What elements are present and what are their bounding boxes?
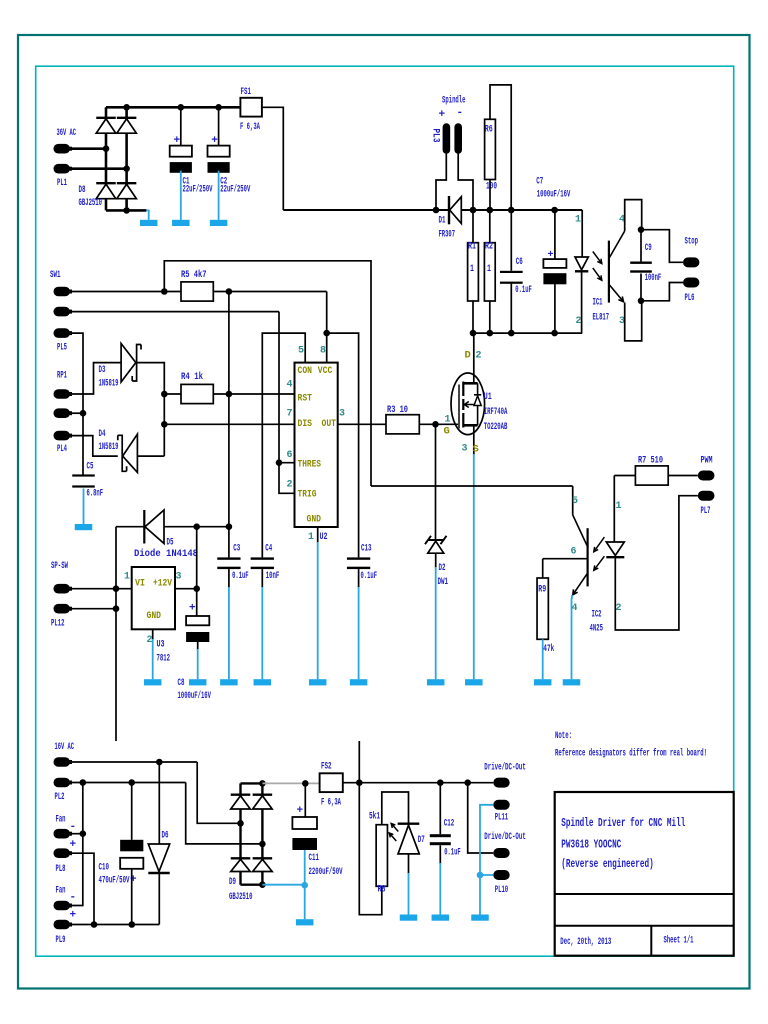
svg-text:FR307: FR307	[439, 229, 456, 241]
svg-text:R9: R9	[538, 584, 546, 596]
wire net row to IC2 pin5	[371, 485, 573, 487]
junction D5 row / +12V column	[226, 523, 233, 530]
wire OUT to R3	[338, 423, 386, 425]
wire +rail bridge to FS1	[106, 106, 240, 109]
wire PL4 to D4 cathode	[70, 436, 118, 457]
diode D7 (LED)	[398, 823, 420, 825]
svg-text:2200uF/50V: 2200uF/50V	[309, 866, 343, 878]
pad SW1 pin 1	[54, 287, 71, 297]
ground of D2	[435, 567, 437, 679]
svg-text:7: 7	[287, 409, 293, 420]
wire THRES column	[279, 312, 295, 463]
IC2 light arrow 1	[594, 537, 605, 552]
svg-text:F 6,3A: F 6,3A	[321, 797, 341, 809]
svg-text:0.1uF: 0.1uF	[515, 284, 532, 296]
diode D5 1N4148	[143, 510, 145, 544]
wire gate column down to D2	[435, 424, 437, 539]
wire C12 bottom lead	[439, 845, 441, 864]
svg-text:3: 3	[339, 409, 345, 420]
wire D7 anode lead	[408, 854, 410, 874]
svg-text:22uF/250V: 22uF/250V	[183, 184, 213, 196]
junction rail / spindle- / R1	[470, 207, 477, 214]
svg-text:SW1: SW1	[50, 269, 61, 281]
wire IC1 collector to C9 node	[625, 200, 642, 231]
wire column to R4	[164, 393, 181, 395]
IC2 light arrow 2	[594, 556, 605, 570]
junction R5 right / +12V column	[226, 288, 233, 295]
junction rail / R8 loop	[356, 779, 363, 786]
pad Fan2 - (PL9 pin 1)	[54, 901, 71, 911]
wire C1 top lead	[180, 107, 182, 145]
junction PL12 / column	[113, 605, 120, 612]
svg-text:GBJ2510: GBJ2510	[229, 891, 253, 903]
svg-text:PL5: PL5	[57, 341, 67, 353]
wire upper section to FS2 out	[358, 741, 360, 783]
svg-text:6.8nF: 6.8nF	[87, 488, 104, 500]
svg-text:Fan: Fan	[56, 885, 66, 897]
svg-text:D9: D9	[229, 876, 236, 888]
wire SW1.3 down to C5	[70, 333, 83, 475]
svg-text:PL7: PL7	[701, 505, 711, 517]
LED of IC2	[606, 542, 624, 556]
svg-text:IC2: IC2	[592, 609, 602, 621]
wire R7 left lead	[614, 475, 635, 477]
wire C7 bottom lead	[554, 284, 556, 334]
IC1 light arrow 1	[593, 252, 602, 264]
wire D6 bottom lead	[158, 873, 160, 925]
wire Q1 source lead	[473, 425, 475, 455]
wire RP1.2 stub	[70, 412, 83, 414]
pad Drive (PL11 pin 1)	[493, 778, 509, 788]
diode D8 top-right	[117, 117, 137, 119]
svg-text:GBJ2510: GBJ2510	[79, 197, 103, 209]
svg-text:RST: RST	[298, 393, 313, 405]
svg-text:Dec, 20th, 2013: Dec, 20th, 2013	[560, 936, 611, 948]
junction D9 top rail	[259, 780, 266, 787]
resistor R4	[181, 384, 213, 403]
svg-text:1: 1	[124, 572, 130, 583]
phototransistor of IC1	[608, 241, 610, 303]
wire VCC branch to C13	[327, 333, 359, 557]
svg-text:G: G	[444, 426, 450, 438]
junction IC1 emitter / C9 / PL6	[638, 298, 645, 305]
wire R1 top lead	[472, 210, 474, 243]
wire cyan ground run from D9	[262, 885, 304, 920]
fuse FS1	[240, 98, 262, 117]
svg-text:THRES: THRES	[298, 458, 322, 470]
svg-text:7812: 7812	[157, 653, 171, 665]
svg-text:1: 1	[487, 263, 491, 275]
svg-text:+: +	[439, 109, 446, 121]
svg-text:PL1: PL1	[57, 177, 67, 189]
wire PL9 row	[70, 924, 159, 926]
junction PL2 / fan column	[80, 779, 87, 786]
wire to TRIG pin	[279, 463, 295, 494]
diode D3 1N5819	[121, 344, 136, 383]
junction rail / C2	[215, 104, 222, 111]
wire C11 bottom lead	[304, 850, 306, 885]
junction PL2 / C10	[128, 779, 135, 786]
junction rail / C6	[508, 207, 515, 214]
wire C9 top lead	[640, 230, 642, 262]
junction rail / C1	[178, 104, 185, 111]
wire IC2 base row to R9	[543, 558, 588, 560]
svg-text:Note:: Note:	[555, 730, 572, 742]
svg-text:10nF: 10nF	[266, 570, 280, 582]
transistor Q1 IRF740A	[451, 373, 485, 435]
svg-text:IRF740A: IRF740A	[484, 406, 508, 418]
svg-text:D7: D7	[418, 834, 425, 846]
diode D8 bottom-left	[96, 182, 116, 184]
svg-text:PL11: PL11	[495, 812, 509, 824]
ground of C13	[358, 587, 360, 679]
svg-text:C8: C8	[178, 677, 185, 689]
wire CON pin to C4	[262, 333, 305, 557]
svg-text:-: -	[457, 107, 464, 119]
junction drain row / C6	[508, 330, 515, 337]
wire C12 top lead	[439, 783, 441, 835]
wire PL2 to bridge right mid	[186, 783, 263, 844]
wire D5 row	[116, 526, 229, 528]
svg-text:R1: R1	[468, 241, 476, 253]
junction THRES / TRIG	[276, 459, 283, 466]
junction rail / Drive2	[464, 779, 471, 786]
svg-text:U2: U2	[320, 531, 328, 543]
svg-text:2: 2	[287, 479, 293, 490]
resistor R3	[386, 415, 419, 434]
wire spindle- to drain net	[458, 154, 473, 211]
drawing frame inner border	[36, 66, 734, 956]
ground of R9	[542, 639, 544, 679]
svg-text:PL12: PL12	[51, 617, 65, 629]
wire C7 top lead	[554, 210, 556, 259]
wire Fan1- stub	[70, 833, 83, 835]
wire +12V column R5-R4-D5-C3	[228, 292, 230, 558]
svg-text:DW1: DW1	[438, 576, 449, 588]
svg-text:R5 4k7: R5 4k7	[181, 269, 207, 281]
ground of C3	[228, 587, 230, 679]
wire fan column	[70, 783, 83, 906]
junction C11 / FS2 input	[302, 780, 309, 787]
svg-text:PL6: PL6	[685, 292, 695, 304]
ground of C5	[83, 489, 85, 525]
svg-text:4N25: 4N25	[590, 623, 604, 635]
diode D4 1N5819	[123, 434, 138, 472]
ground of U2	[317, 542, 319, 679]
pad PL10 pin 2	[493, 870, 509, 880]
svg-text:100nF: 100nF	[645, 272, 662, 284]
svg-text:R7 510: R7 510	[638, 455, 663, 467]
IC U2 (555 timer) body	[295, 363, 338, 527]
svg-text:C3: C3	[233, 543, 240, 555]
svg-text:16V AC: 16V AC	[55, 741, 75, 753]
pad PWM (PL7 pin 1)	[698, 471, 715, 481]
pad SW1 pin 2	[54, 307, 71, 317]
svg-text:C6: C6	[516, 256, 523, 268]
svg-text:5k1: 5k1	[369, 811, 380, 823]
svg-text:Sheet 1/1: Sheet 1/1	[664, 935, 694, 947]
wire column D5 to lower section	[115, 527, 117, 741]
svg-text:R2: R2	[485, 241, 493, 253]
wire R2 bottom lead	[489, 301, 491, 333]
svg-text:36V AC: 36V AC	[57, 127, 77, 139]
wire C10 top lead	[131, 783, 133, 840]
resistor R1	[468, 243, 479, 301]
IC2 emitter diagonal with arrowhead	[573, 573, 588, 595]
wire 16VAC.1 to bridge left mid	[197, 762, 240, 823]
ground of D7	[408, 873, 410, 915]
pad 16VAC pin 1	[54, 757, 71, 767]
pad Fan1 + (PL8 pin 2)	[54, 848, 71, 858]
pad PL3 pin 2 (spindle -)	[454, 123, 462, 154]
pad PL11 pin 2	[493, 800, 509, 810]
Q1 body diode	[474, 383, 481, 425]
junction D5 row / C8	[193, 523, 200, 530]
wire 36V rail row	[283, 209, 582, 211]
svg-text:6: 6	[287, 450, 293, 461]
svg-text:-: -	[70, 821, 77, 833]
svg-text:1: 1	[470, 263, 474, 275]
junction PL9 row / Fan1+ column	[91, 921, 98, 928]
junction gate / D2 column	[432, 421, 439, 428]
svg-text:PL4: PL4	[57, 443, 67, 455]
junction SW1.1 / R5 loop	[161, 288, 168, 295]
svg-text:R8: R8	[378, 884, 386, 896]
wire IC1 anode lead	[581, 210, 583, 257]
wire R8 bottom loop	[359, 783, 382, 915]
svg-text:1: 1	[575, 215, 581, 226]
capacitor C1	[170, 146, 192, 157]
wire D8 bridge bottom rail	[106, 209, 146, 212]
junction rail / C12	[437, 779, 444, 786]
junction rail / spindle+	[433, 207, 440, 214]
ground of IC2 emitter	[563, 679, 581, 685]
wire drain net row	[473, 332, 582, 334]
ground of D8 bridge	[140, 220, 158, 226]
junction R4 right / +12V column	[226, 391, 233, 398]
svg-text:1: 1	[445, 415, 451, 426]
svg-text:4: 4	[287, 380, 293, 391]
wire D9 bottom rail	[241, 884, 263, 886]
wire R2 top lead	[489, 210, 491, 243]
svg-text:2: 2	[147, 635, 153, 646]
ground of C8	[197, 649, 199, 679]
wire C3 bottom lead	[228, 569, 230, 588]
capacitor C11	[292, 817, 317, 829]
resistor R9	[537, 578, 548, 639]
svg-text:D8: D8	[79, 184, 86, 196]
svg-text:+: +	[189, 603, 196, 615]
svg-text:1000uF/16V: 1000uF/16V	[537, 189, 571, 201]
wire D8 bridge left leg	[105, 107, 108, 210]
wire RP1.1 to D3 anode	[70, 363, 121, 394]
svg-text:+: +	[70, 839, 77, 851]
junction drain row / R1	[470, 330, 477, 337]
junction +12V / C8 column	[193, 585, 200, 592]
wire PL1.1 to bridge left mid	[70, 147, 106, 150]
svg-text:2: 2	[616, 603, 622, 614]
pad PL1 pin 1	[54, 144, 71, 154]
wire R9 top lead	[542, 559, 544, 578]
svg-text:D5: D5	[167, 537, 174, 549]
IC U3 (7812 regulator) body	[132, 567, 175, 629]
svg-text:SP-SW: SP-SW	[51, 560, 68, 572]
junction VCC / C13 branch	[323, 330, 330, 337]
junction drain row / C7	[551, 330, 558, 337]
pad Drive (PL10 pin 1)	[493, 848, 509, 858]
wire +12V pin to C8	[175, 588, 197, 590]
svg-text:Fan: Fan	[56, 814, 66, 826]
wire VCC pin column	[326, 292, 328, 363]
svg-text:PL9: PL9	[56, 934, 66, 946]
junction 16VAC.1 / D6	[156, 759, 163, 766]
wire D9 bridge left leg	[239, 783, 241, 884]
wire Fan1+ to PL9 row	[70, 853, 94, 924]
svg-text:EL817: EL817	[593, 312, 610, 324]
svg-text:0.1uF: 0.1uF	[444, 847, 461, 859]
wire D6 top lead	[158, 762, 160, 844]
wire D3 cathode to column	[137, 363, 165, 457]
wire C9 bottom lead	[640, 274, 642, 301]
svg-text:22uF/250V: 22uF/250V	[220, 184, 250, 196]
svg-text:C4: C4	[265, 543, 272, 555]
IC1 emitter diagonal with arrowhead	[609, 284, 624, 302]
diode D9 bottom-right	[253, 857, 273, 859]
wire Q1 drain lead	[473, 333, 475, 383]
wire IC2 pin5 lead	[572, 486, 574, 515]
svg-text:C13: C13	[361, 543, 372, 555]
diode D9 top-left	[231, 794, 251, 796]
wire C6 top lead	[510, 210, 512, 271]
pad PL12 pin 2	[54, 604, 71, 614]
wire 16VAC.1 row	[70, 761, 197, 763]
wire rail to Drive2 pad	[468, 783, 494, 853]
wire R5 loop over to D2/IC2 net	[164, 261, 371, 486]
svg-text:5: 5	[572, 496, 578, 507]
svg-text:C7: C7	[536, 176, 543, 188]
svg-text:0.1uF: 0.1uF	[232, 570, 249, 582]
svg-text:Spindle Driver for CNC Mill: Spindle Driver for CNC Mill	[561, 816, 685, 830]
svg-text:C12: C12	[444, 818, 455, 830]
wire R6 bottom lead	[489, 180, 491, 211]
wire IC1 cathode lead	[581, 271, 583, 333]
wire D3/D4 net to DIS pin	[164, 423, 294, 425]
junction RP1.2 / C5 column	[80, 410, 87, 417]
svg-text:1000uF/16V: 1000uF/16V	[178, 690, 212, 702]
pad PL2 pin 2	[54, 778, 71, 788]
svg-text:470uF/50V: 470uF/50V	[99, 875, 130, 887]
wire C10 bottom lead	[131, 869, 133, 925]
svg-text:PL10: PL10	[495, 884, 509, 896]
ground of PL10/PL11	[471, 915, 489, 921]
wire C11 top lead	[304, 783, 306, 816]
svg-text:(Reverse engineered): (Reverse engineered)	[561, 857, 654, 871]
wire PL1.2 to bridge right mid	[70, 167, 127, 170]
svg-text:C10: C10	[99, 862, 110, 874]
wire to Stop pad	[641, 230, 683, 263]
svg-text:S: S	[473, 444, 479, 456]
junction bottom rail / right leg	[123, 207, 130, 214]
wire SW1.1 to R5	[70, 291, 181, 293]
diode D8 top-left	[96, 117, 116, 119]
ground of C12	[439, 863, 441, 915]
svg-text:DIS: DIS	[298, 418, 313, 430]
junction bridge right mid	[123, 165, 130, 172]
diode D8 bottom-right	[117, 182, 137, 184]
svg-text:2: 2	[576, 316, 582, 327]
svg-text:GND: GND	[307, 513, 322, 525]
diode D2 DW1	[425, 536, 447, 544]
wire C8 column	[196, 527, 198, 616]
pad PL3 pin 1 (spindle +)	[443, 123, 451, 154]
svg-text:TO220AB: TO220AB	[484, 421, 508, 433]
wire U2 GND pin lead	[317, 527, 319, 543]
capacitor C5	[72, 474, 95, 476]
svg-text:IC1: IC1	[593, 297, 603, 309]
svg-text:C5: C5	[87, 461, 94, 473]
ground of C4	[261, 587, 263, 679]
pad PL1 pin 2	[54, 164, 71, 174]
wire spindle+ to rail	[436, 154, 446, 211]
junction drain row / R2	[487, 330, 494, 337]
svg-text:C11: C11	[309, 852, 320, 864]
svg-text:C9: C9	[645, 242, 652, 254]
junction IC1 collector / C9 / Stop	[638, 226, 645, 233]
IC2 collector diagonal	[573, 515, 588, 547]
wire C13 bottom lead	[358, 569, 360, 588]
svg-text:PW3618 YOOCNC: PW3618 YOOCNC	[561, 838, 621, 852]
pad SP-SW (PL12 pin 1)	[54, 584, 71, 594]
svg-text:D3: D3	[99, 364, 106, 376]
pad RP1 pin 1	[54, 389, 71, 399]
svg-text:R6: R6	[485, 124, 493, 136]
wire R1 bottom lead	[472, 301, 474, 333]
capacitor C3	[217, 557, 240, 559]
capacitor C4	[251, 557, 274, 559]
junction cyan PL11/PL10	[477, 872, 484, 879]
svg-text:Drive/DC-Out: Drive/DC-Out	[484, 762, 526, 774]
svg-text:5: 5	[298, 346, 304, 357]
svg-text:D2: D2	[439, 562, 446, 574]
junction bridge left mid	[103, 145, 110, 152]
ground of U3	[152, 639, 154, 679]
wire IC1 emitter to C9 bottom node	[625, 301, 642, 341]
svg-text:RP1: RP1	[57, 370, 67, 382]
title block frame	[555, 792, 734, 956]
svg-text:VI: VI	[135, 577, 145, 589]
svg-text:8: 8	[320, 346, 326, 357]
wire R8 top to D7	[382, 792, 409, 825]
ground of C2	[218, 171, 220, 220]
pad Fan2 + (PL9 pin 2)	[54, 920, 71, 930]
wire to PL6 pad	[641, 283, 683, 301]
wire D9 bridge right leg	[261, 783, 263, 884]
svg-text:1N5819: 1N5819	[99, 441, 119, 453]
wire C4 bottom lead	[261, 569, 263, 588]
capacitor C9	[630, 262, 652, 264]
junction D3/D4 column / R4	[161, 391, 168, 398]
ground of Q1 source	[473, 454, 475, 679]
pad SW1 pin 3	[54, 328, 71, 338]
wire output rail FS2 to Drive pad	[343, 782, 494, 784]
svg-text:-: -	[70, 892, 77, 904]
resistor R6	[485, 119, 496, 179]
junction D9 left mid	[237, 820, 244, 827]
wire R7 to PWM pad	[668, 475, 698, 477]
svg-text:+: +	[297, 805, 304, 817]
wire D2 anode stub	[435, 553, 437, 568]
svg-text:TRIG: TRIG	[298, 488, 317, 500]
